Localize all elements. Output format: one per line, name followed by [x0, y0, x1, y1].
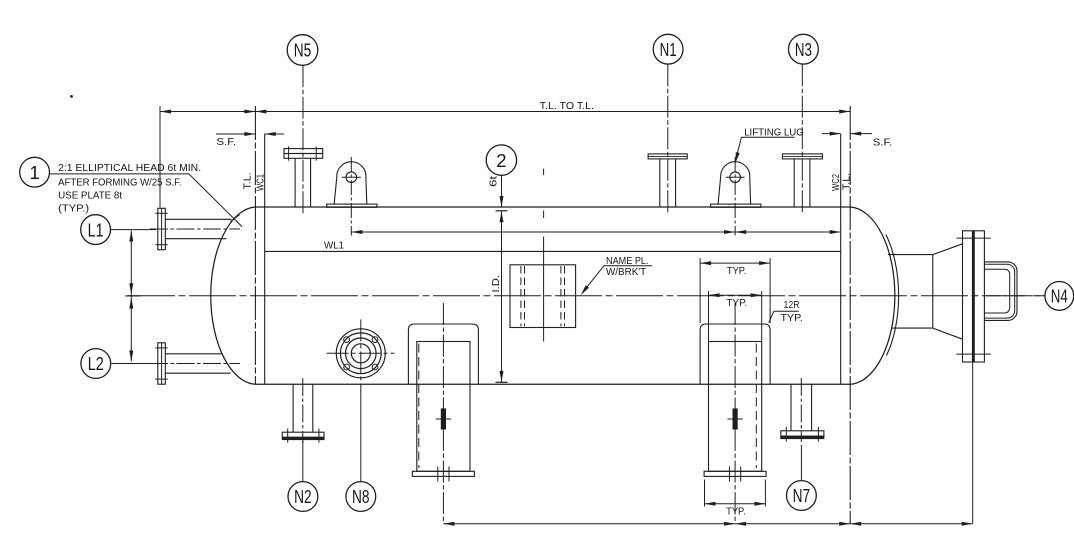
nozzle N5 flange: [284, 146, 323, 160]
extension line L1 flange face: [159, 106, 161, 208]
saddle support 1: [408, 303, 478, 524]
svg-text:WC2: WC2: [831, 174, 842, 191]
nozzle N5 pipe: [295, 158, 311, 207]
note line 1: [58, 162, 201, 174]
svg-text:T.L. TO T.L.: T.L. TO T.L.: [540, 100, 594, 112]
svg-text:WL1: WL1: [324, 239, 344, 251]
arrow bottom flange: [962, 522, 973, 526]
davit outer: [984, 262, 1017, 321]
nozzle N4 neck: [888, 255, 933, 329]
weld line WC1: [264, 134, 266, 384]
nozzle N4 flange: [956, 231, 990, 362]
svg-text:N2: N2: [294, 486, 312, 507]
label S.F. left: [217, 136, 237, 148]
leader balloon 1: [50, 174, 243, 227]
vessel shell top line: [255, 206, 850, 208]
svg-text:I.D.: I.D.: [490, 275, 502, 293]
note line 3: [58, 190, 122, 202]
arrow lug dim right end: [830, 230, 841, 234]
wear plate dim ext lines: [700, 258, 770, 323]
dim line lugs: [351, 231, 840, 233]
svg-text:6t: 6t: [488, 176, 500, 187]
arrow bottom saddle2 L: [724, 522, 735, 526]
svg-text:S.F.: S.F.: [873, 137, 893, 149]
tangent line T.L. right: [849, 106, 851, 524]
svg-text:AFTER FORMING W/25 S.F.: AFTER FORMING W/25 S.F.: [58, 177, 182, 189]
note line 2: [58, 177, 182, 189]
right 2:1 elliptical head: [850, 207, 895, 384]
svg-text:(TYP.): (TYP.): [58, 203, 89, 215]
label TYP base: [726, 505, 746, 517]
svg-text:T.L.: T.L.: [243, 173, 254, 190]
right head seam offset arc: [886, 235, 899, 356]
svg-text:USE PLATE 8t: USE PLATE 8t: [58, 190, 122, 202]
svg-text:WC1: WC1: [255, 174, 266, 191]
svg-text:TYP.: TYP.: [726, 505, 746, 517]
svg-text:TYP.: TYP.: [781, 312, 803, 324]
dimension line top: [160, 111, 850, 113]
svg-text:TYP.: TYP.: [726, 297, 747, 309]
davit inner: [984, 269, 1009, 313]
arrow center up: [129, 298, 133, 309]
S.F. dim right: [822, 132, 872, 136]
S.F. dim left: [216, 132, 284, 136]
label I.D. rotated: [490, 275, 502, 293]
nozzle N8 bolt holes: [344, 337, 378, 370]
svg-text:L1: L1: [88, 219, 104, 240]
leader N7: [800, 445, 802, 481]
arrow 6t up: [500, 211, 504, 222]
nozzle N7 centerline: [800, 378, 802, 442]
svg-text:W/BRK'T: W/BRK'T: [606, 266, 647, 278]
svg-text:2: 2: [496, 150, 506, 171]
nozzle N3 pipe: [794, 159, 810, 207]
center tick: [126, 295, 141, 297]
balloon N1: [653, 34, 683, 64]
nozzle N1 flange: [648, 154, 687, 159]
lifting lug right: [711, 157, 761, 236]
arrow lug2 right-side: [735, 230, 746, 234]
svg-text:N3: N3: [795, 39, 812, 60]
label TYP web: [726, 297, 747, 309]
I.D. dim line: [501, 211, 503, 382]
nozzle L1 flange: [155, 208, 167, 249]
web dim arrows: [709, 293, 762, 297]
nozzle N2 centerline: [302, 378, 304, 443]
leader 12R: [769, 311, 774, 323]
name plate centerline: [543, 169, 545, 342]
balloon 2: [486, 145, 516, 175]
vessel centerline: [128, 295, 1045, 297]
label 12R: [774, 299, 800, 311]
nozzle L2 centerline: [150, 363, 240, 365]
label WC1 rotated: [255, 174, 266, 191]
balloon N3: [789, 34, 819, 64]
leader N2: [302, 441, 304, 482]
nozzle N8 crosshair: [327, 319, 395, 390]
note line 4: [58, 203, 89, 215]
davit middle: [984, 264, 1014, 318]
label NAME PL.: [604, 255, 652, 267]
base dim: [705, 502, 766, 506]
nozzle N1 pipe: [660, 159, 676, 207]
svg-text:T.L.: T.L.: [842, 173, 853, 190]
stray dot: [70, 95, 73, 98]
arrow bottom TL L: [839, 522, 850, 526]
saddle support 2: [700, 303, 770, 524]
leader L2: [111, 363, 156, 365]
balloon N7: [787, 481, 817, 511]
label T.L. right rotated: [842, 173, 853, 190]
label 6t rotated: [488, 176, 500, 187]
svg-text:NAME PL.: NAME PL.: [606, 255, 649, 267]
web dim ext lines: [709, 291, 762, 342]
label TYP wear: [727, 265, 747, 277]
nozzle N7 flange: [781, 427, 824, 442]
balloon 1: [20, 157, 50, 187]
balloon L2: [81, 349, 111, 379]
nozzle N2 flange: [282, 429, 324, 443]
balloon N4: [1045, 282, 1074, 311]
weld line WL1: [265, 250, 841, 252]
nozzle L1 centerline: [150, 228, 240, 230]
balloon L1: [81, 215, 111, 245]
label TYP 12R: [781, 312, 803, 324]
weld line WC2: [840, 134, 842, 384]
arrow head-depth right: [244, 110, 255, 114]
nozzle L2 flange: [155, 343, 167, 384]
arrow bottom TL R: [850, 522, 861, 526]
arrow bottom saddle2 R: [735, 522, 746, 526]
balloon N8: [346, 482, 376, 512]
arrow lug2 left-side: [724, 230, 735, 234]
left 2:1 elliptical head: [211, 207, 256, 384]
svg-text:LIFTING LUG: LIFTING LUG: [744, 126, 804, 138]
6t tick: [496, 210, 508, 212]
vessel shell bottom line: [255, 383, 850, 385]
name plate hidden lines: [521, 266, 565, 326]
nozzle N2 pipe: [293, 384, 313, 432]
leader N8: [360, 390, 362, 482]
arrow top-left: [160, 110, 171, 114]
dim line L1-L2: [130, 231, 132, 362]
svg-text:2:1 ELLIPTICAL HEAD 6t MIN.: 2:1 ELLIPTICAL HEAD 6t MIN.: [58, 162, 201, 174]
svg-text:L2: L2: [88, 353, 104, 374]
svg-text:N7: N7: [793, 485, 811, 506]
nozzle N8 flange circles: [336, 329, 385, 378]
nozzle N3 flange: [782, 154, 822, 159]
svg-text:N4: N4: [1051, 286, 1068, 307]
label S.F. right: [873, 137, 893, 149]
nozzle L1 pipe: [165, 219, 231, 238]
label WL1: [324, 239, 344, 251]
I.D. tick: [496, 381, 508, 383]
leader lifting lug: [735, 137, 741, 163]
leader N4: [986, 295, 1045, 297]
svg-text:S.F.: S.F.: [217, 136, 237, 148]
arrow bottom saddle1: [443, 522, 454, 526]
nozzle N5 centerline: [302, 65, 304, 215]
label WC2 rotated: [831, 174, 842, 191]
arrow L1 up: [129, 231, 133, 242]
6t dim line: [501, 176, 503, 208]
leader L1: [111, 229, 157, 231]
nozzle L2 pipe: [165, 354, 230, 373]
label W/BRKT: [606, 266, 647, 278]
base dim ext lines: [705, 480, 766, 507]
tangent line T.L. left: [254, 106, 256, 384]
N4 flange extension line: [972, 362, 974, 524]
balloon N2: [288, 482, 318, 512]
nozzle N3 centerline: [801, 64, 803, 215]
svg-text:N8: N8: [352, 486, 370, 507]
leader name plate: [581, 266, 604, 295]
svg-text:N5: N5: [294, 40, 312, 61]
label T.L. left rotated: [243, 173, 254, 190]
arrow TL-TL left: [255, 110, 266, 114]
balloon N5: [287, 35, 318, 66]
label LIFTING LUG: [741, 126, 803, 138]
arrow lug1: [351, 230, 362, 234]
svg-text:12R: 12R: [784, 299, 800, 311]
nozzle N1 centerline: [667, 64, 669, 215]
dim line bottom: [443, 523, 972, 525]
arrow 6t down: [500, 196, 504, 207]
arrow TL-TL right: [839, 110, 850, 114]
name plate box: [510, 265, 576, 328]
svg-text:TYP.: TYP.: [727, 265, 747, 277]
label T.L. TO T.L.: [540, 100, 594, 112]
lifting lug left: [327, 157, 377, 236]
nozzle N4 cone: [933, 244, 963, 339]
arrow center down: [129, 283, 133, 294]
leader tick on head: [231, 215, 240, 222]
arrow L2 down: [129, 351, 133, 362]
svg-text:1: 1: [29, 162, 39, 183]
arrow I.D. down: [500, 371, 504, 382]
svg-text:N1: N1: [660, 39, 677, 60]
nozzle N7 pipe: [791, 384, 812, 431]
wear plate dim: [700, 261, 770, 265]
